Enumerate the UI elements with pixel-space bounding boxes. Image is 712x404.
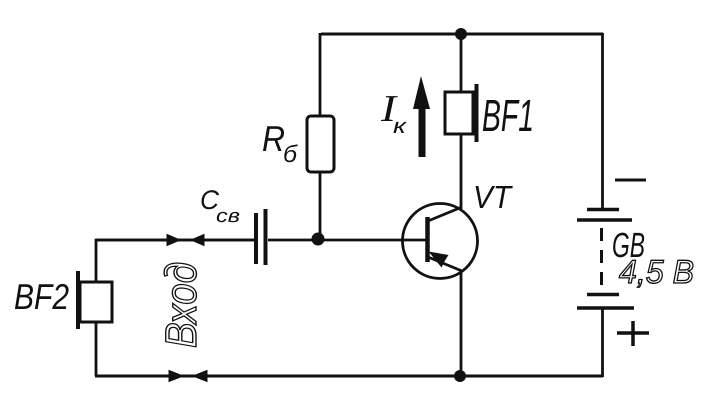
transistor VT base bar [425, 217, 430, 262]
wire BF1 to top junction [460, 34, 463, 92]
wire right top vertical [601, 33, 604, 208]
input arrow top right-pointing [167, 235, 180, 246]
input arrow top left-pointing [191, 235, 204, 246]
wire left branch vertical to resistor [319, 33, 322, 117]
svg-text:б: б [283, 141, 299, 168]
battery GB cell1 long plate [577, 218, 632, 222]
current arrow I_k [413, 76, 430, 157]
wire emitter down [460, 270, 463, 376]
earphone BF1 body [445, 92, 473, 134]
svg-text:к: к [393, 115, 407, 138]
svg-text:Вход: Вход [157, 262, 206, 348]
wire right bottom vertical [601, 308, 604, 377]
capacitor C_sv right plate [264, 209, 268, 265]
wire BF2 top [96, 240, 254, 283]
transistor VT emitter stroke [428, 257, 462, 271]
battery GB dashed middle [600, 228, 603, 291]
battery GB cell1 short plate [587, 208, 619, 212]
wire capacitor to transistor base [268, 239, 426, 242]
wire input top segment [96, 239, 254, 242]
resistor R_b label [262, 118, 299, 168]
earphone BF2 side bar [76, 271, 80, 329]
input arrow bottom left-pointing [193, 371, 207, 382]
wire collector to BF1 [460, 134, 463, 209]
capacitor C_sv left plate [254, 213, 258, 264]
wire resistor to base node [319, 172, 322, 240]
current label I_k [380, 88, 408, 138]
svg-text:св: св [216, 206, 240, 227]
battery GB minus mark [615, 179, 646, 182]
earphone BF2 body [80, 282, 112, 322]
resistor R_b body [307, 116, 334, 172]
node dot base junction [312, 233, 325, 246]
battery GB cell2 short plate [587, 293, 619, 297]
transistor VT collector stroke [428, 207, 462, 221]
wire top horizontal [321, 33, 603, 36]
svg-text:BF2: BF2 [14, 276, 69, 317]
capacitor C_sv label [200, 185, 240, 227]
transistor VT emitter arrow [429, 252, 449, 268]
svg-text:4,5 В: 4,5 В [619, 253, 694, 290]
svg-text:VT: VT [473, 179, 513, 215]
wire bottom horizontal [95, 375, 603, 378]
svg-text:BF1: BF1 [482, 90, 534, 141]
svg-text:R: R [262, 118, 285, 159]
node dot top junction [455, 28, 467, 40]
input arrow bottom right-pointing [169, 371, 183, 382]
wire BF2 bottom [95, 322, 98, 376]
battery GB cell2 long plate [577, 306, 634, 310]
battery GB plus mark [617, 321, 649, 346]
transistor VT circle [403, 204, 478, 279]
node dot bottom junction [454, 370, 466, 382]
earphone BF1 side bar [475, 84, 479, 142]
